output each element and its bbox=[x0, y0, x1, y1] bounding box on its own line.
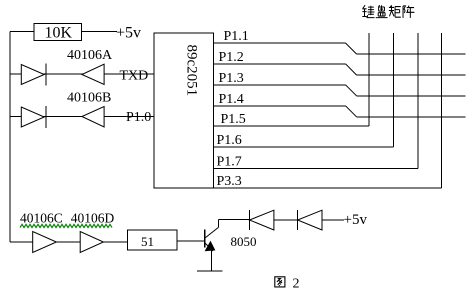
svg-text:TXD: TXD bbox=[120, 69, 149, 84]
svg-text:P1.4: P1.4 bbox=[219, 92, 244, 107]
svg-text:P1.7: P1.7 bbox=[217, 155, 242, 170]
svg-text:+5v: +5v bbox=[344, 212, 368, 228]
svg-text:89c2051: 89c2051 bbox=[183, 45, 199, 97]
svg-text:P1.2: P1.2 bbox=[219, 50, 244, 65]
svg-text:40106D: 40106D bbox=[71, 211, 115, 226]
svg-text:P1.6: P1.6 bbox=[217, 133, 242, 148]
svg-text:+5v: +5v bbox=[116, 25, 141, 42]
svg-text:P1.0: P1.0 bbox=[126, 110, 151, 125]
svg-text:8050: 8050 bbox=[231, 234, 257, 249]
svg-text:P3.3: P3.3 bbox=[217, 174, 242, 189]
svg-text:2: 2 bbox=[293, 277, 300, 290]
svg-text:P1.5: P1.5 bbox=[221, 112, 246, 127]
svg-text:P1.3: P1.3 bbox=[219, 71, 244, 86]
svg-text:40106C: 40106C bbox=[20, 211, 63, 226]
svg-text:40106A: 40106A bbox=[67, 48, 113, 63]
svg-text:P1.1: P1.1 bbox=[224, 29, 249, 44]
svg-text:40106B: 40106B bbox=[67, 91, 111, 106]
svg-text:51: 51 bbox=[141, 234, 154, 249]
svg-text:10K: 10K bbox=[45, 25, 73, 42]
